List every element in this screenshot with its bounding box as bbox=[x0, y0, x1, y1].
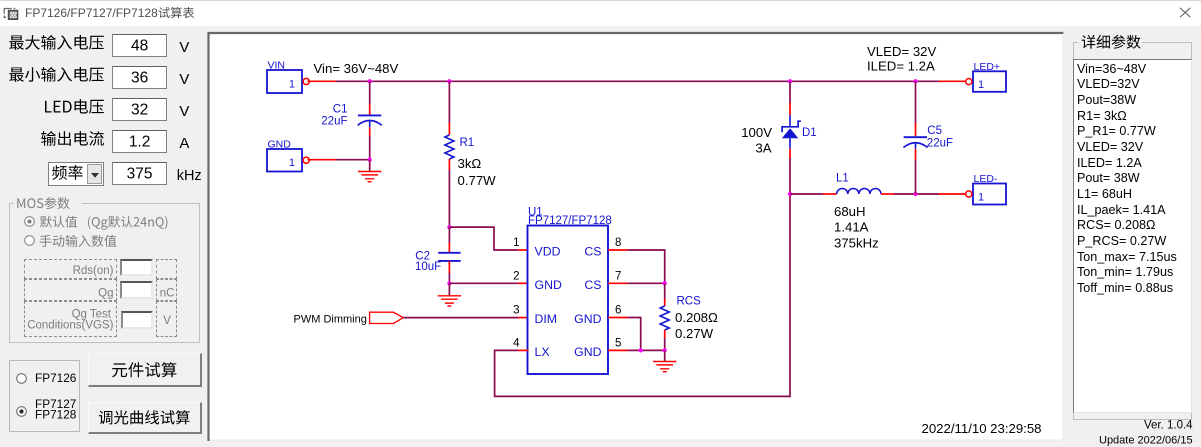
pin 6 GND bbox=[608, 317, 628, 319]
svg-text:L1: L1 bbox=[836, 173, 849, 185]
svg-text:C5: C5 bbox=[927, 125, 942, 137]
wire pin4 stub bbox=[518, 349, 529, 351]
svg-text:3kΩ: 3kΩ bbox=[458, 156, 482, 171]
wire top rail bbox=[336, 80, 939, 82]
svg-text:ILED= 1.2A: ILED= 1.2A bbox=[867, 59, 935, 74]
node J1 bbox=[368, 79, 372, 83]
wire RCS top bbox=[664, 283, 666, 299]
wire C5 bottom bbox=[915, 149, 917, 160]
svg-text:VLED= 32V: VLED= 32V bbox=[867, 44, 936, 59]
node J7 bbox=[447, 281, 451, 285]
svg-text:375kHz: 375kHz bbox=[834, 235, 879, 250]
wire pin1 stub bbox=[518, 249, 529, 251]
PWM port arrow bbox=[370, 312, 404, 323]
wire gnd stem bbox=[369, 160, 371, 172]
node J5 bbox=[368, 158, 372, 162]
capacitor C5 bbox=[904, 136, 927, 138]
schematic panel background bbox=[208, 32, 1064, 441]
svg-text:4: 4 bbox=[513, 337, 520, 349]
svg-text:FP7127/FP7128: FP7127/FP7128 bbox=[528, 215, 612, 227]
wire J8 to L1 bbox=[790, 193, 823, 195]
node J8 bbox=[788, 192, 792, 196]
svg-text:22uF: 22uF bbox=[321, 116, 347, 128]
svg-text:GND: GND bbox=[535, 278, 562, 292]
node J6 bbox=[447, 225, 451, 229]
node J3 bbox=[788, 79, 792, 83]
wire VIN stub bbox=[308, 80, 337, 82]
resistor RCS bbox=[660, 306, 669, 330]
capacitor C2 bbox=[438, 253, 460, 261]
capacitor C1 bbox=[358, 114, 381, 116]
wire RCS bottom bbox=[664, 330, 666, 338]
svg-text:Vin= 36V~48V: Vin= 36V~48V bbox=[314, 61, 399, 76]
diode D1 schottky bbox=[789, 115, 791, 127]
VIN port bbox=[267, 70, 302, 93]
svg-text:0.27W: 0.27W bbox=[675, 326, 714, 341]
wire D1 bottom bbox=[789, 138, 791, 148]
svg-text:3: 3 bbox=[513, 305, 519, 317]
svg-text:7: 7 bbox=[615, 270, 621, 282]
svg-text:VDD: VDD bbox=[535, 245, 561, 259]
svg-text:10uF: 10uF bbox=[415, 261, 441, 273]
svg-text:LED-: LED- bbox=[974, 173, 998, 185]
wire gnd2 stem bbox=[448, 283, 450, 296]
svg-text:R1: R1 bbox=[460, 137, 475, 149]
GND port bbox=[267, 149, 302, 172]
wire C1 top bbox=[369, 81, 371, 104]
wire pin5 rail bbox=[628, 349, 665, 351]
wire D1 top bbox=[789, 81, 791, 103]
ground symbol C2 bbox=[438, 296, 461, 306]
inductor L1 bbox=[837, 188, 881, 194]
svg-text:1: 1 bbox=[978, 79, 984, 91]
ground symbol RCS bbox=[653, 362, 676, 372]
wire LED+ stub bbox=[939, 80, 967, 82]
wire C2 top bbox=[448, 227, 450, 243]
svg-text:LX: LX bbox=[535, 345, 550, 359]
svg-text:D1: D1 bbox=[802, 127, 817, 139]
svg-text:1: 1 bbox=[513, 237, 519, 249]
svg-text:RCS: RCS bbox=[677, 296, 702, 308]
svg-text:2022/11/10 23:29:58: 2022/11/10 23:29:58 bbox=[922, 421, 1042, 436]
node J10 bbox=[663, 348, 667, 352]
wire LX bottom rail bbox=[495, 194, 790, 396]
pin 7 CS bbox=[608, 282, 628, 284]
pin 5 GND bbox=[608, 349, 628, 351]
node J4 bbox=[913, 79, 917, 83]
svg-text:LED+: LED+ bbox=[974, 61, 1001, 73]
wire C5 top bbox=[915, 81, 917, 123]
LED- port bbox=[973, 184, 1006, 205]
svg-text:2: 2 bbox=[513, 270, 519, 282]
svg-text:VIN: VIN bbox=[268, 60, 286, 72]
wire C2 bottom bbox=[448, 261, 450, 273]
wire J6 to pin1 bbox=[449, 227, 518, 250]
svg-text:DIM: DIM bbox=[535, 312, 558, 326]
wire LED- stub bbox=[939, 193, 967, 195]
svg-text:1.41A: 1.41A bbox=[834, 219, 869, 234]
svg-text:GND: GND bbox=[574, 312, 601, 326]
svg-text:6: 6 bbox=[615, 305, 621, 317]
svg-text:8: 8 bbox=[615, 237, 621, 249]
svg-text:68uH: 68uH bbox=[834, 204, 866, 219]
svg-text:GND: GND bbox=[268, 139, 292, 151]
node J9 bbox=[663, 281, 667, 285]
LED+ port bbox=[973, 71, 1006, 92]
wire pin7 bbox=[628, 282, 665, 284]
svg-text:5: 5 bbox=[615, 337, 621, 349]
wire R1 bottom bbox=[448, 159, 450, 170]
op-amp U1 body bbox=[528, 226, 609, 375]
svg-text:1: 1 bbox=[289, 78, 295, 90]
node J12 bbox=[913, 192, 917, 196]
wire gnd3 stem bbox=[664, 350, 666, 361]
svg-text:0.77W: 0.77W bbox=[458, 173, 497, 188]
svg-text:CS: CS bbox=[584, 245, 601, 259]
svg-text:22uF: 22uF bbox=[927, 137, 953, 149]
wire PWM to pin3 bbox=[403, 317, 518, 319]
svg-text:1: 1 bbox=[289, 157, 295, 169]
wire pin8 to RCS bbox=[628, 250, 665, 283]
svg-text:3A: 3A bbox=[755, 141, 771, 156]
svg-text:PWM Dimming: PWM Dimming bbox=[294, 313, 367, 325]
svg-text:GND: GND bbox=[574, 345, 601, 359]
svg-text:C1: C1 bbox=[333, 104, 348, 116]
wire R1 top bbox=[448, 81, 450, 123]
wire C1 bottom bbox=[369, 127, 371, 135]
wire J7 to pin2 bbox=[449, 282, 518, 284]
svg-text:CS: CS bbox=[584, 278, 601, 292]
node J11 bbox=[639, 348, 643, 352]
svg-text:1: 1 bbox=[978, 191, 984, 203]
svg-text:0.208Ω: 0.208Ω bbox=[675, 310, 718, 325]
wire L1 right lead bbox=[881, 193, 894, 195]
resistor R1 bbox=[445, 135, 454, 159]
svg-text:100V: 100V bbox=[741, 125, 772, 140]
pin 8 CS bbox=[608, 249, 628, 251]
ground symbol main bbox=[358, 172, 381, 182]
wire pin6 down bbox=[628, 318, 641, 351]
wire GND stub bbox=[308, 159, 337, 161]
node J2 bbox=[447, 79, 451, 83]
